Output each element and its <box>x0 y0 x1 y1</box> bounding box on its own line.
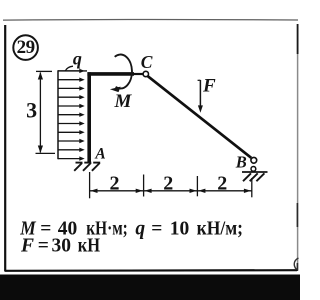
thin link to pin C <box>133 73 143 75</box>
dimension 3: vertical line <box>39 73 41 153</box>
distributed load top edge <box>58 70 87 72</box>
svg-text:B: B <box>235 152 247 171</box>
moment M arc <box>115 55 132 89</box>
page artifact parenthesis bottom-right <box>294 258 298 270</box>
svg-text:F: F <box>202 76 216 97</box>
svg-text:2: 2 <box>110 172 120 194</box>
svg-text:F: F <box>20 236 34 257</box>
bottom border line <box>5 269 297 272</box>
dimension 3 up arrowhead <box>38 72 43 80</box>
svg-text:C: C <box>141 52 153 72</box>
dimension arrowheads <box>90 189 251 193</box>
distributed load q: left edge <box>57 70 59 159</box>
support B hatching <box>243 173 264 181</box>
pin C <box>143 71 148 76</box>
given data text line 2 <box>20 236 100 257</box>
dimension line <box>90 190 252 192</box>
svg-text:q: q <box>73 49 82 69</box>
distributed load arrows <box>58 71 80 159</box>
support A hatching <box>74 163 100 171</box>
svg-text:3: 3 <box>26 97 37 122</box>
force F arrow shaft <box>199 80 201 107</box>
dimension 3 bottom tick <box>36 152 56 154</box>
svg-text:29: 29 <box>17 37 35 58</box>
pin B circle <box>251 157 257 163</box>
dimension tick 3 <box>196 176 198 196</box>
dimension tick 1 (at A) <box>89 172 91 198</box>
svg-text:кН: кН <box>78 236 100 257</box>
problem number circle 29 <box>13 35 38 60</box>
dimension tick 4 (at B) <box>251 178 253 197</box>
given data text line 1 <box>19 218 243 239</box>
top border line <box>3 18 298 21</box>
svg-text:A: A <box>94 146 105 163</box>
svg-text:кН/м;: кН/м; <box>197 218 243 239</box>
svg-text:q: q <box>135 218 145 239</box>
force F arrowhead <box>198 105 203 112</box>
dimension tick 2 <box>143 175 145 197</box>
inclined member CB <box>148 76 251 158</box>
svg-text:30: 30 <box>52 236 72 257</box>
svg-text:2: 2 <box>217 172 227 194</box>
svg-text:10: 10 <box>170 218 190 239</box>
svg-text:2: 2 <box>163 172 173 194</box>
force F start dash <box>198 79 201 81</box>
svg-text:=: = <box>151 218 162 239</box>
roller B circle <box>251 167 256 172</box>
dimension 3 down arrowhead <box>38 146 43 154</box>
left border <box>4 25 6 272</box>
dimension 3 top tick <box>36 70 52 72</box>
support B ground line <box>242 171 268 173</box>
svg-text:M: M <box>114 91 133 112</box>
right border <box>297 24 299 270</box>
moment M arrowhead <box>110 87 121 93</box>
bottom black band <box>0 275 300 300</box>
beam top horizontal member <box>87 72 134 76</box>
svg-text:=: = <box>38 236 49 257</box>
beam AC vertical member <box>87 72 91 162</box>
q leader line <box>65 66 73 71</box>
